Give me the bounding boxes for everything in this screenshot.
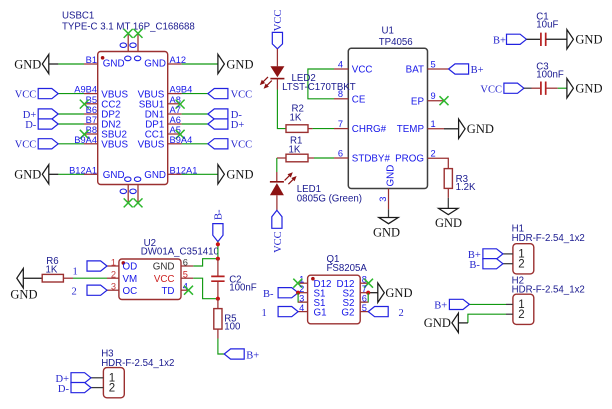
svg-text:D-: D- xyxy=(25,120,37,131)
ground arrow at pin 3 xyxy=(379,218,398,224)
svg-text:OD: OD xyxy=(123,262,138,273)
resistor R1 xyxy=(286,154,308,162)
ground port GND at TEMP xyxy=(459,119,466,138)
pin 3 GND bottom xyxy=(388,189,390,210)
svg-text:LTST-C170TBKT: LTST-C170TBKT xyxy=(282,82,356,93)
pin 6 STDBY# xyxy=(334,157,348,159)
svg-text:B1: B1 xyxy=(86,55,97,65)
svg-text:2: 2 xyxy=(111,269,116,279)
svg-text:100nF: 100nF xyxy=(536,70,564,81)
LED LED1 xyxy=(276,172,278,182)
svg-text:2: 2 xyxy=(109,383,115,395)
pin A9B4 VBUS (left) xyxy=(84,93,98,95)
IC U1 body xyxy=(348,48,427,188)
pin 5 G2 xyxy=(360,311,368,313)
svg-text:B+: B+ xyxy=(434,301,447,312)
LED1 emission arrows xyxy=(285,174,291,180)
power port VCC vertical at LED1 xyxy=(272,210,282,228)
port B+ at H1 pin1 xyxy=(483,249,503,259)
wire R1 down to LED1 xyxy=(276,158,278,172)
svg-text:6: 6 xyxy=(338,148,343,158)
pin 1 OD xyxy=(107,265,119,267)
svg-text:VCC: VCC xyxy=(480,85,502,96)
svg-text:D+: D+ xyxy=(231,120,245,131)
svg-text:G2: G2 xyxy=(341,307,354,318)
wire R2 to pin 7 xyxy=(313,128,334,130)
wire LED2 to R2 xyxy=(277,90,286,129)
svg-text:B+: B+ xyxy=(246,350,259,361)
net port at OD xyxy=(87,261,107,271)
port B+ below R5 xyxy=(224,349,244,359)
ground port GND at A12 xyxy=(218,54,225,73)
H3 pin 1 xyxy=(91,377,103,379)
svg-text:B-: B- xyxy=(469,260,480,271)
junction dot C2 top xyxy=(216,257,220,261)
svg-text:VCC: VCC xyxy=(15,140,37,151)
wire B- to C2 xyxy=(217,242,219,259)
wire S1 tie xyxy=(298,293,308,302)
svg-text:TD: TD xyxy=(161,286,174,297)
port B+ at H2 pin1 xyxy=(449,299,469,309)
ground arrow at R3 xyxy=(439,208,458,214)
pin 1 indicator dot U2 xyxy=(122,261,126,265)
pin 8 D12 no-connect xyxy=(360,282,369,284)
port D- at H3 pin2 xyxy=(71,383,91,393)
transistor Q1 body xyxy=(308,275,361,324)
svg-text:VM: VM xyxy=(123,274,138,285)
wire CE tied to VCC loop xyxy=(308,69,334,99)
net port at G2 xyxy=(368,307,388,317)
ground port GND at C1 xyxy=(567,30,574,49)
svg-text:1: 1 xyxy=(262,308,267,319)
ground port GND at S2 xyxy=(378,283,385,302)
pin 2 PROG xyxy=(428,158,449,168)
svg-text:CHRG#: CHRG# xyxy=(352,124,387,135)
header H3 body xyxy=(103,368,124,398)
pin 6 GND xyxy=(181,265,193,267)
LED2 emission arrows xyxy=(266,81,272,87)
power port VCC at lower VBUS xyxy=(38,139,58,149)
svg-text:1: 1 xyxy=(431,119,436,129)
pin 2 VM xyxy=(107,277,119,279)
port VCC at C3 xyxy=(504,83,524,93)
pin B8 SBU2 no-connect xyxy=(84,133,98,135)
wire R5 to B+ port xyxy=(218,339,224,355)
svg-text:7: 7 xyxy=(338,119,343,129)
ground port GND at B1 xyxy=(42,54,49,73)
svg-text:B+: B+ xyxy=(493,36,506,47)
pin 2 S1 xyxy=(298,292,308,294)
pin 4 VCC xyxy=(334,68,348,70)
pin B5 CC2 no-connect xyxy=(84,103,98,105)
capacitor C2 xyxy=(217,259,219,276)
pin A12 GND (right top) xyxy=(168,63,182,65)
svg-text:TYPE-C 3.1 MT 16P_C168688: TYPE-C 3.1 MT 16P_C168688 xyxy=(62,21,195,32)
port D+ at DP2 xyxy=(38,109,58,119)
pin 3 OC xyxy=(107,289,119,291)
H1 pin 2 xyxy=(503,263,513,265)
port D+ at H3 pin1 xyxy=(71,373,91,383)
pin B6 DP2 xyxy=(84,113,98,115)
net port at OC xyxy=(87,285,107,295)
no-connect X bottom S3 xyxy=(124,198,133,207)
pin 3 S1 xyxy=(298,301,308,303)
svg-text:4: 4 xyxy=(299,303,304,313)
pin B7 DN2 xyxy=(84,123,98,125)
wire R1 to pin 6 xyxy=(314,157,334,159)
pin A5 CC1 no-connect xyxy=(168,133,182,135)
top shield pin S1 xyxy=(127,34,129,52)
pin B9A4 VBUS (right bottom) xyxy=(168,143,182,145)
svg-text:HDR-F-2.54_1x2: HDR-F-2.54_1x2 xyxy=(512,233,585,244)
svg-text:D-: D- xyxy=(58,384,70,395)
svg-text:USBC1: USBC1 xyxy=(62,10,94,21)
svg-text:3: 3 xyxy=(111,282,116,292)
pin 4 TD no-connect xyxy=(181,289,189,291)
LED LED2 xyxy=(276,49,278,67)
pin A8 SBU1 no-connect xyxy=(168,103,182,105)
svg-text:3: 3 xyxy=(299,293,304,303)
svg-text:GND: GND xyxy=(424,316,451,330)
header H1 body xyxy=(513,244,534,274)
svg-text:VCC: VCC xyxy=(273,10,284,32)
IC U2 body xyxy=(119,259,181,300)
svg-text:1K: 1K xyxy=(289,144,301,155)
svg-text:GND: GND xyxy=(103,59,125,70)
svg-text:VCC: VCC xyxy=(15,90,37,101)
pin 4 G1 xyxy=(298,311,308,313)
svg-text:6: 6 xyxy=(183,257,188,267)
svg-text:A7: A7 xyxy=(170,105,181,115)
svg-text:3: 3 xyxy=(378,197,388,202)
wire pin5 to C2 bottom node xyxy=(193,278,218,299)
power port VCC at right lower VBUS xyxy=(208,139,228,149)
svg-text:EP: EP xyxy=(411,97,425,108)
resistor R3 xyxy=(447,188,449,197)
pin 1 TEMP xyxy=(428,128,445,130)
svg-text:2: 2 xyxy=(518,259,524,271)
pin 8 CE xyxy=(334,98,348,100)
wire B1 to GND port xyxy=(49,63,59,65)
pin B12A1 GND (right bottom) xyxy=(168,173,182,175)
bottom pad ellipses xyxy=(125,177,131,182)
svg-text:2: 2 xyxy=(431,149,436,159)
pin B1 GND (left top) xyxy=(84,63,98,65)
pin 7 CHRG# xyxy=(334,128,348,130)
wire S2 tie xyxy=(360,293,368,302)
svg-text:2: 2 xyxy=(72,286,77,297)
svg-text:VBUS: VBUS xyxy=(101,140,128,151)
power port VCC vertical at LED2 xyxy=(272,32,282,48)
svg-text:B-: B- xyxy=(213,209,224,220)
ground port GND at right B12A1 xyxy=(218,165,225,184)
svg-text:5: 5 xyxy=(431,59,436,69)
pin 9 EP no-connect xyxy=(428,100,445,102)
pin A9B4 VBUS (right) xyxy=(168,93,182,95)
pin 1 D12 no-connect xyxy=(299,282,308,284)
svg-text:GND: GND xyxy=(14,57,41,71)
wire R6 to pin 2 xyxy=(73,277,107,279)
header H2 body xyxy=(513,294,534,324)
svg-text:GND: GND xyxy=(467,122,494,136)
svg-text:1: 1 xyxy=(73,267,78,278)
wire B+ to H2 pin1 xyxy=(469,303,506,305)
svg-text:GND: GND xyxy=(10,287,37,301)
ground port GND at R6 xyxy=(17,269,24,288)
svg-text:2: 2 xyxy=(518,309,524,321)
svg-text:BAT: BAT xyxy=(406,64,424,75)
svg-text:GND: GND xyxy=(575,33,602,47)
H3 pin 2 xyxy=(91,387,103,389)
port D+ at DP1 xyxy=(208,119,228,129)
svg-text:G1: G1 xyxy=(314,307,327,318)
power port VCC at right VBUS xyxy=(208,89,228,99)
svg-text:PROG: PROG xyxy=(395,154,424,165)
junction dot at S2 xyxy=(366,291,370,295)
svg-text:GND: GND xyxy=(226,57,253,71)
svg-text:B7: B7 xyxy=(86,115,97,125)
svg-text:GND: GND xyxy=(103,170,125,181)
pin 7 S2 xyxy=(360,292,368,294)
port B- at H1 pin2 xyxy=(483,259,503,269)
pin 5 BAT xyxy=(428,68,449,70)
H2 pin 1 xyxy=(506,303,513,305)
svg-text:B5: B5 xyxy=(86,95,97,105)
pin B9A4 VBUS (left bottom) xyxy=(84,143,98,145)
junction dot at S1 xyxy=(296,291,300,295)
top shield pin S2 xyxy=(137,34,139,52)
resistor R5 xyxy=(217,299,219,309)
port B+ at BAT xyxy=(449,64,469,74)
svg-text:10uF: 10uF xyxy=(536,20,558,31)
svg-text:1: 1 xyxy=(111,257,116,267)
port D- at DN1 xyxy=(208,109,228,119)
no-connect X top S1 xyxy=(124,29,133,38)
resistor R2 xyxy=(286,125,308,133)
pin A6 DP1 xyxy=(168,123,182,125)
svg-text:VBUS: VBUS xyxy=(138,140,165,151)
svg-text:1.2K: 1.2K xyxy=(456,182,476,193)
port D- at DN2 xyxy=(38,119,58,129)
svg-text:GND: GND xyxy=(435,216,462,230)
pin 1 indicator dot Q1 xyxy=(311,277,315,281)
port B- at S1 xyxy=(278,288,298,298)
svg-text:GND: GND xyxy=(14,168,41,182)
svg-text:100nF: 100nF xyxy=(229,283,257,294)
svg-text:B+: B+ xyxy=(471,65,484,76)
svg-text:GND: GND xyxy=(144,170,166,181)
connector USBC1 body xyxy=(98,52,168,185)
pin B12A1 GND (left bottom) xyxy=(84,173,98,175)
svg-text:6: 6 xyxy=(362,293,367,303)
power port VCC at VBUS xyxy=(38,89,58,99)
svg-text:TEMP: TEMP xyxy=(397,124,425,135)
wire pin6 to C2 top node xyxy=(193,259,218,266)
bottom shield pin S4 xyxy=(137,185,139,203)
svg-text:U1: U1 xyxy=(382,26,394,37)
wire H2 pin2 to GND xyxy=(468,314,506,323)
svg-text:GND: GND xyxy=(373,225,400,239)
ground port GND at H2 pin2 xyxy=(452,313,459,332)
svg-text:B8: B8 xyxy=(86,125,97,135)
ground port GND at B12A1 xyxy=(42,165,49,184)
svg-text:OC: OC xyxy=(123,286,138,297)
svg-text:VCC: VCC xyxy=(231,90,253,101)
port B+ at C1 xyxy=(507,34,527,44)
svg-text:9: 9 xyxy=(431,91,436,101)
power port B- vertical above C2 xyxy=(213,224,223,242)
pin 1 indicator dot xyxy=(101,56,105,60)
no-connect X top S2 xyxy=(134,29,143,38)
pin 6 S2 xyxy=(360,301,368,303)
svg-text:GND: GND xyxy=(385,286,412,300)
svg-text:STDBY#: STDBY# xyxy=(352,153,391,164)
svg-text:TP4056: TP4056 xyxy=(379,37,413,48)
svg-text:2: 2 xyxy=(399,308,404,319)
svg-text:GND: GND xyxy=(575,82,602,96)
ground port GND at C3 xyxy=(567,79,574,98)
svg-text:VCC: VCC xyxy=(154,274,175,285)
svg-text:VCC: VCC xyxy=(352,64,373,75)
net port at G1 xyxy=(278,307,298,317)
svg-text:5: 5 xyxy=(183,269,188,279)
bottom shield pin S3 xyxy=(127,185,129,203)
svg-text:B6: B6 xyxy=(86,105,97,115)
svg-text:VCC: VCC xyxy=(273,231,284,253)
svg-text:GND: GND xyxy=(226,168,253,182)
svg-text:VCC: VCC xyxy=(231,140,253,151)
svg-text:0805G (Green): 0805G (Green) xyxy=(297,194,362,205)
svg-text:GND: GND xyxy=(385,165,396,187)
junction dot C2 bottom xyxy=(216,297,220,301)
svg-text:1K: 1K xyxy=(290,113,302,124)
svg-text:A6: A6 xyxy=(170,115,181,125)
no-connect X bottom S4 xyxy=(134,198,143,207)
top pad ellipses xyxy=(120,43,126,48)
svg-text:GND: GND xyxy=(144,59,166,70)
pin A7 DN1 xyxy=(168,113,182,115)
junction dot below B- flag xyxy=(216,242,220,246)
svg-text:5: 5 xyxy=(362,303,367,313)
H1 pin 1 xyxy=(503,253,513,255)
svg-text:GND: GND xyxy=(153,262,175,273)
svg-text:CE: CE xyxy=(352,94,366,105)
svg-text:DW01A_C351410: DW01A_C351410 xyxy=(141,246,220,257)
svg-text:FS8205A: FS8205A xyxy=(327,263,368,274)
H2 pin 2 xyxy=(506,313,513,315)
svg-text:100: 100 xyxy=(224,321,241,332)
pin 5 VCC xyxy=(181,277,193,279)
wire VBUS to VCC port xyxy=(58,93,84,95)
svg-text:B-: B- xyxy=(263,289,274,300)
svg-text:4: 4 xyxy=(338,59,343,69)
